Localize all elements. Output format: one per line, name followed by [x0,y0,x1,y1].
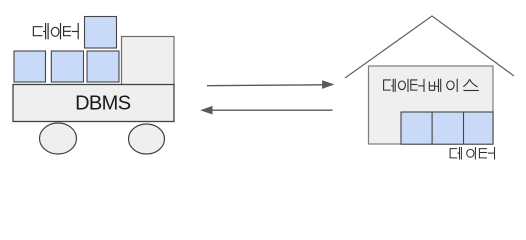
svg-text:DBMS: DBMS [75,93,131,115]
